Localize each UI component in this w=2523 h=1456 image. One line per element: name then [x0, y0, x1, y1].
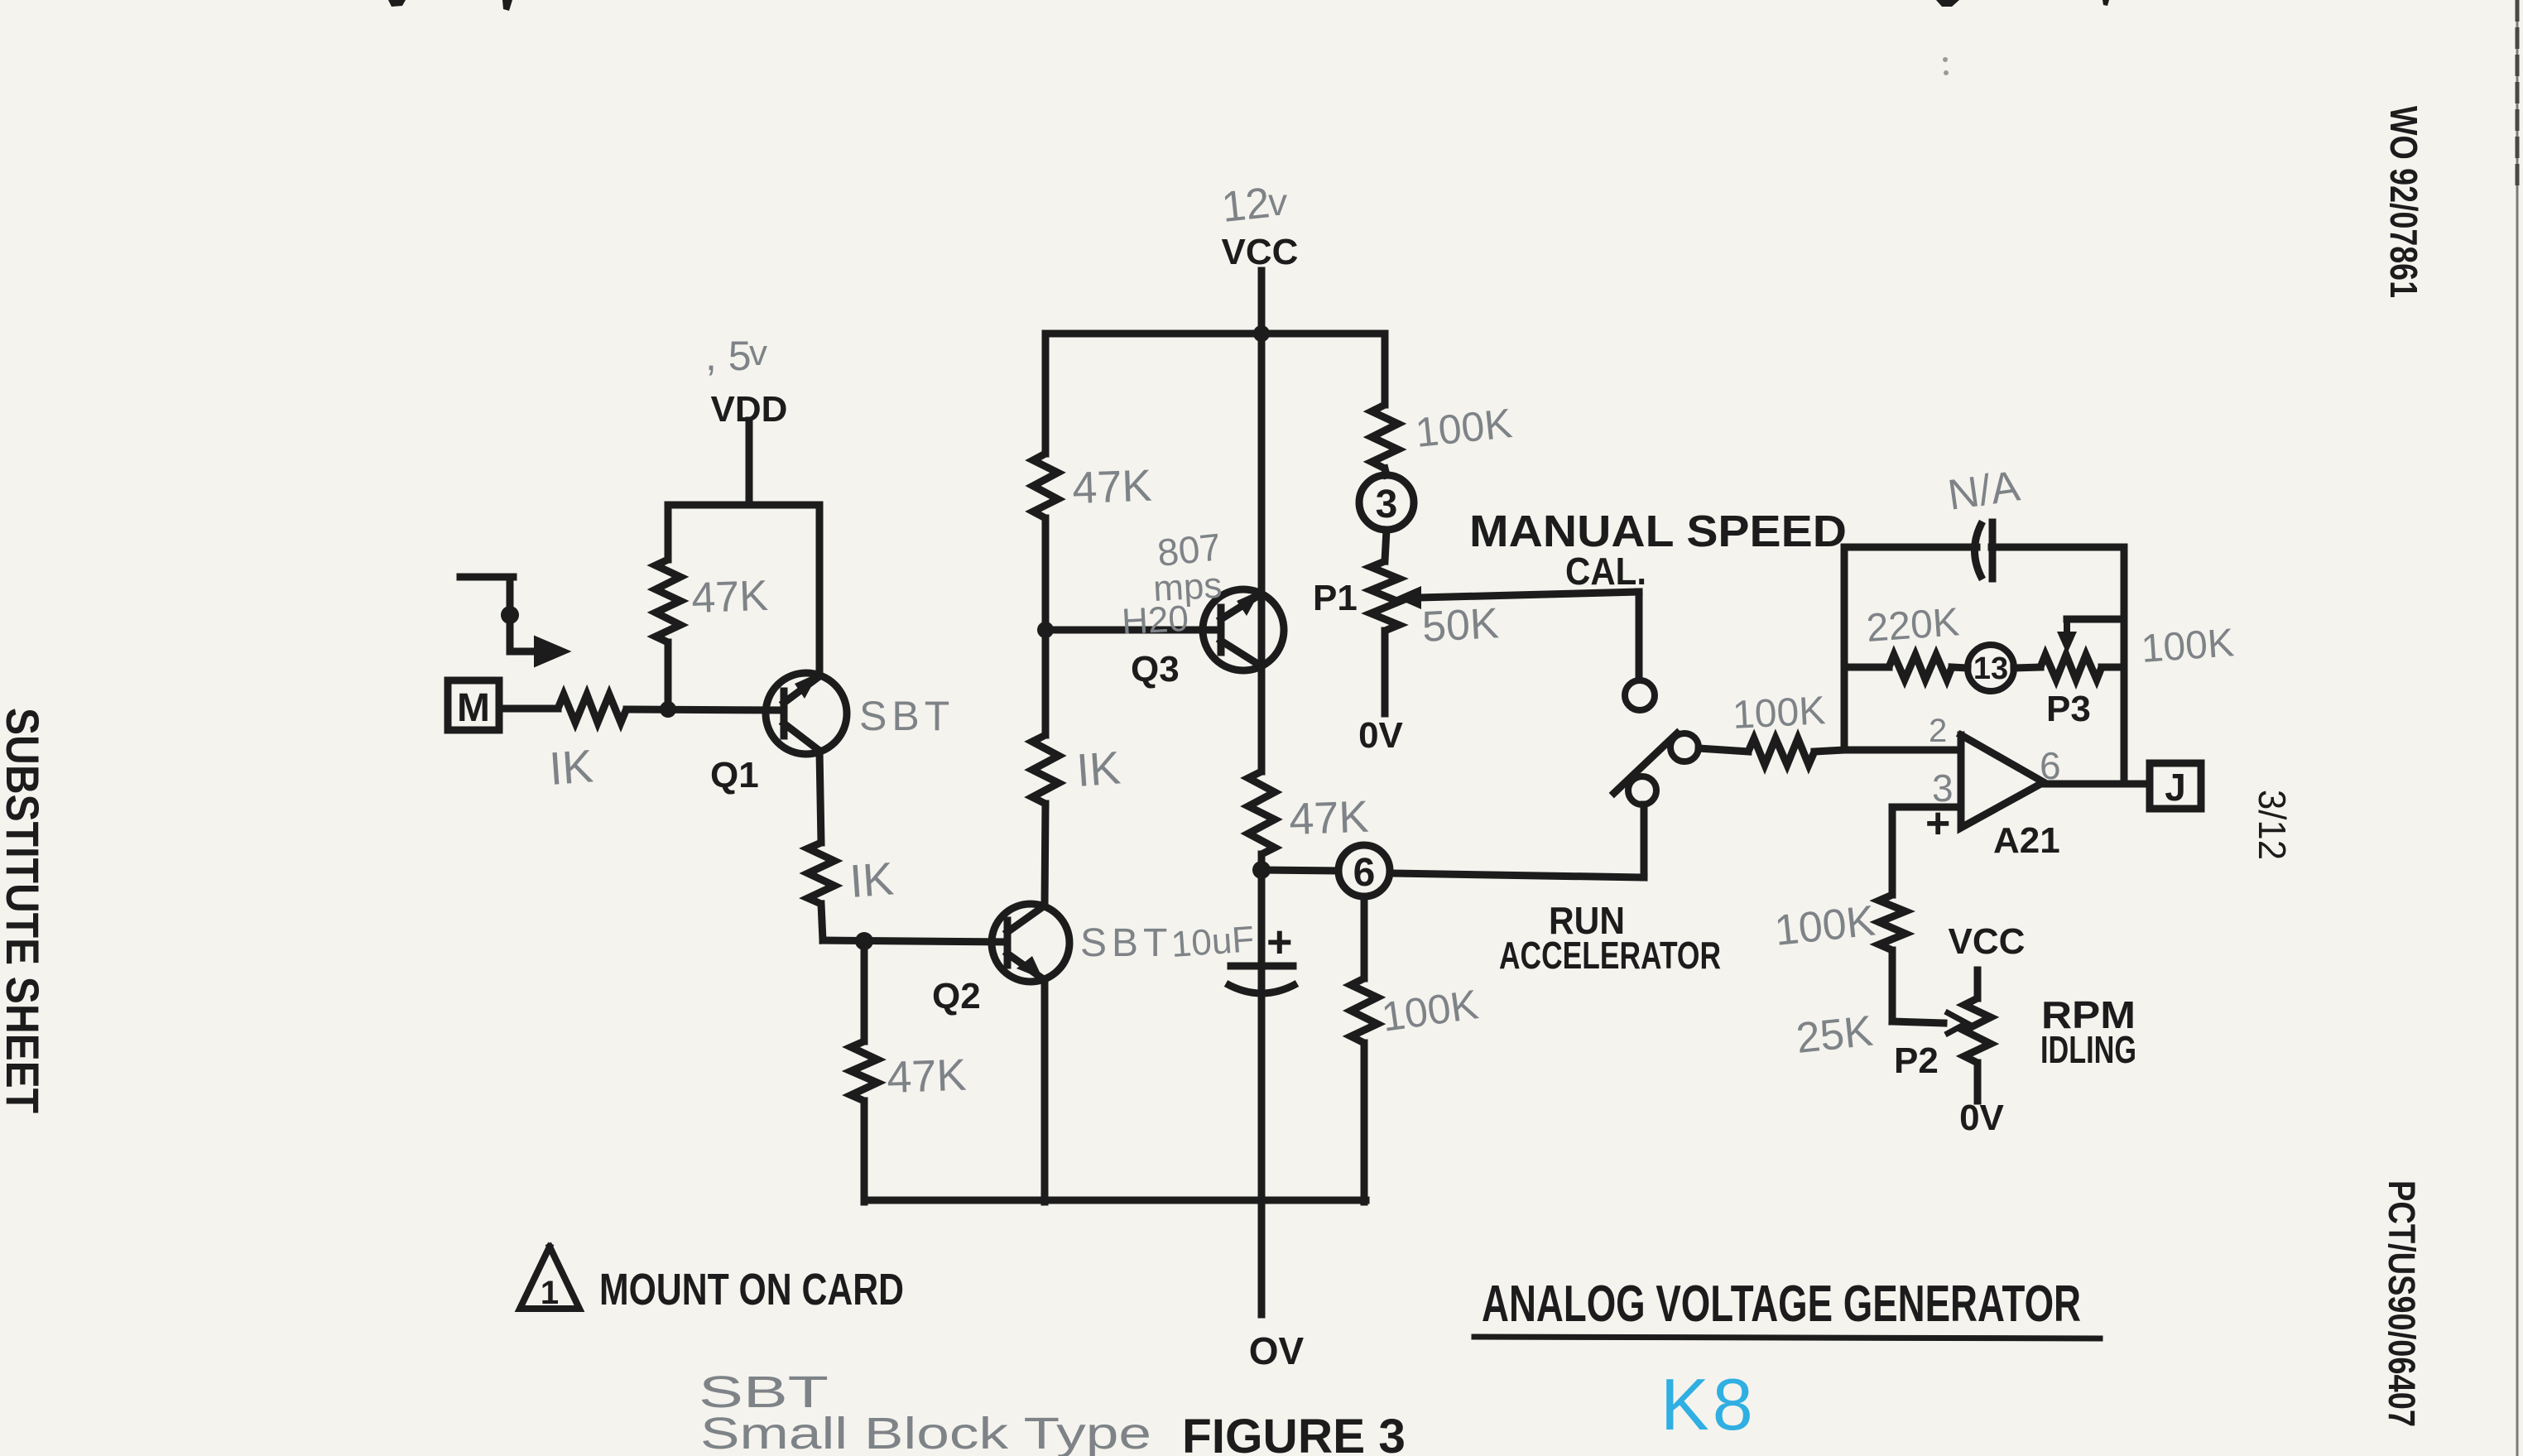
svg-text:Q1: Q1 [710, 755, 759, 795]
resistor 47K (Q2 base) [851, 1041, 877, 1101]
wire: Q1 emitter [819, 751, 821, 843]
svg-text:IK: IK [1074, 741, 1122, 796]
resistor 1K (Q1 emitter) [808, 843, 834, 904]
svg-text:MANUAL SPEED: MANUAL SPEED [1469, 507, 1847, 556]
wire: jack stub top [460, 574, 513, 581]
title underline [1474, 1337, 2100, 1338]
node: jack junction dot [501, 606, 519, 624]
wire: switch common to 100K [1699, 748, 1748, 752]
wire: junction down to 47K [861, 941, 868, 1041]
svg-text:CAL.: CAL. [1565, 550, 1646, 593]
svg-text:SBT: SBT [1080, 921, 1172, 965]
svg-text:ACCELERATOR: ACCELERATOR [1499, 934, 1721, 977]
wire: VCC stub to P2 [1974, 970, 1982, 998]
svg-text:SBT: SBT [859, 693, 954, 739]
svg-text:IDLING: IDLING [2040, 1028, 2136, 1071]
wire: resistor to Q1 base [627, 709, 784, 710]
svg-text:100K: 100K [2140, 621, 2236, 671]
resistor 220K (feedback) [1889, 655, 1952, 680]
capacitor 10uF [1231, 963, 1293, 970]
wire: Q2 emitter to ground rail [1041, 980, 1049, 1202]
svg-text:PCT/US90/06407: PCT/US90/06407 [2381, 1180, 2423, 1427]
svg-text:50K: 50K [1421, 599, 1501, 651]
node: capacitor junction dot [1252, 861, 1271, 879]
wire: junction to 1K [1042, 630, 1050, 735]
transistor Q1 [766, 673, 847, 754]
svg-text:3/12: 3/12 [2251, 790, 2294, 860]
svg-text:12: 12 [1219, 179, 1272, 232]
potentiometer P2 25K [1964, 998, 1991, 1063]
wire: jack stub vertical [507, 577, 514, 651]
svg-text:A21: A21 [1993, 820, 2060, 861]
svg-text:Q2: Q2 [932, 976, 981, 1016]
power VCC stub [1258, 271, 1266, 334]
wire: feedback box left edge [1841, 547, 1848, 750]
svg-text:3: 3 [1376, 483, 1398, 526]
svg-text:P2: P2 [1894, 1040, 1939, 1081]
switch contact (bottom, run) [1628, 776, 1656, 805]
svg-text:v: v [749, 333, 767, 373]
svg-text:1: 1 [541, 1275, 559, 1311]
switch blade [1614, 733, 1677, 793]
wire: node 6 down to 100K [1361, 896, 1368, 978]
wire: jack stub bottom [510, 648, 538, 656]
svg-text:FIGURE 3: FIGURE 3 [1182, 1410, 1406, 1456]
svg-text:P3: P3 [2046, 689, 2091, 729]
wire: right branch from rail [1382, 334, 1389, 405]
power VDD stub [746, 420, 753, 505]
wire: feedback box right edge [2121, 547, 2128, 784]
svg-text:10uF: 10uF [1170, 919, 1255, 965]
svg-text:, 5: , 5 [705, 333, 752, 379]
terminal M box [448, 680, 499, 730]
node: base junction dot [660, 701, 676, 718]
P2 wiper arrow (open) [1945, 1012, 1967, 1035]
svg-text:47K: 47K [886, 1050, 967, 1103]
note triangle 1 [520, 1247, 579, 1309]
resistor 47K (Q3 emitter) [1248, 771, 1275, 854]
resistor 100K (node 6 load) [1351, 978, 1377, 1043]
wire: op-amp non-inverting input [1892, 804, 1961, 811]
wire: switch run contact down to node 6 [1641, 805, 1648, 877]
op-amp A21 [1961, 735, 2044, 828]
wire: feedback box top (to capacitor) [1844, 544, 1977, 551]
potentiometer P3 100K [2014, 667, 2040, 668]
wire: left branch from VCC rail (collector chain) [1042, 334, 1050, 454]
resistor 47K (Q1 bias) [665, 505, 672, 560]
node: VCC rail dot [1253, 325, 1270, 342]
svg-text:6: 6 [1353, 851, 1376, 895]
svg-text:N/A: N/A [1945, 462, 2023, 520]
scan artifact: right edge line [2516, 0, 2519, 1456]
svg-text:100K: 100K [1732, 689, 1827, 738]
svg-text:0V: 0V [1959, 1098, 2004, 1138]
node: Q2 base junction dot [855, 932, 873, 950]
svg-text:VCC: VCC [1949, 921, 2026, 962]
wire: bottom ground rail [864, 1197, 1366, 1204]
svg-text:47K: 47K [1288, 792, 1369, 844]
P3 wiper arrow [2064, 619, 2070, 639]
potentiometer P1 50K [1371, 561, 1399, 631]
capacitor N/A (feedback) [1975, 521, 1983, 579]
node 3 (circled) [1359, 475, 1414, 530]
resistor 1K (input) [558, 694, 627, 723]
terminal J box [2150, 763, 2201, 809]
svg-text:+: + [1266, 917, 1293, 967]
svg-text:Q3: Q3 [1131, 649, 1180, 690]
svg-text:Small Block Type: Small Block Type [700, 1409, 1151, 1456]
wire: 0V stub [1258, 1200, 1266, 1314]
wire: op-amp inverting input [1844, 747, 1961, 754]
svg-text:0V: 0V [1358, 715, 1403, 756]
transistor Q3 [1203, 589, 1284, 670]
svg-text:IK: IK [848, 852, 895, 907]
svg-text:IK: IK [547, 739, 594, 795]
svg-text:K8: K8 [1660, 1363, 1756, 1445]
svg-text:47K: 47K [690, 572, 769, 622]
P1 wiper arrow and wire [1395, 586, 1421, 609]
scan artifact: top edge marks [388, 0, 406, 7]
wire: VCC line down through Q3 [1258, 334, 1266, 771]
node 6 (circled) [1338, 845, 1390, 896]
switch contact (middle, common) [1670, 733, 1699, 762]
svg-text:VDD: VDD [711, 389, 788, 430]
svg-text:OV: OV [1249, 1329, 1305, 1372]
wire: op-amp output [2044, 781, 2150, 788]
svg-text:H20: H20 [1121, 598, 1189, 642]
svg-text:WO 92/07861: WO 92/07861 [2382, 106, 2425, 298]
wire: bias box top [668, 502, 819, 509]
resistor 100K (P1 top) [1372, 405, 1398, 469]
svg-text:M: M [457, 686, 490, 730]
svg-text:2: 2 [1929, 713, 1947, 749]
wire: Q3 base wire [1045, 627, 1221, 634]
svg-text:VCC: VCC [1222, 232, 1299, 272]
svg-text:P1: P1 [1313, 578, 1358, 618]
svg-text:v: v [1268, 180, 1287, 223]
transistor Q2 [992, 904, 1069, 982]
resistor 47K (Q3 base pull-up) [1033, 454, 1058, 518]
wire: to P2 wiper [1892, 1021, 1944, 1023]
wire: feedback mid branch left [1844, 664, 1889, 671]
svg-text:ANALOG VOLTAGE GENERATOR: ANALOG VOLTAGE GENERATOR [1482, 1276, 2081, 1333]
wire: M to resistor 1K [499, 705, 558, 713]
svg-text:J: J [2165, 766, 2186, 809]
wire: VCC top rail [1045, 330, 1385, 338]
scan artifact: faint colon [1943, 57, 1948, 62]
svg-text:SUBSTITUTE SHEET: SUBSTITUTE SHEET [0, 708, 49, 1113]
resistor 100K (op-amp input) [1748, 738, 1814, 765]
resistor 100K (non-inv divider) [1879, 895, 1905, 950]
wire: node 3 to P1 [1385, 530, 1386, 561]
wire: Q1 collector [816, 505, 824, 676]
svg-text:MOUNT ON CARD: MOUNT ON CARD [599, 1265, 904, 1314]
node 13 (circled) [1968, 645, 2014, 691]
arrow: off-page signal arrow [535, 637, 569, 666]
switch contact (top, manual) [1625, 680, 1655, 710]
wire: emitter resistor to Q2 base [821, 904, 823, 940]
resistor 1K (Q2 collector) [1032, 735, 1059, 804]
wire: node 6 to capacitor junction [1261, 870, 1338, 871]
node: Q3 base junction dot [1037, 622, 1054, 638]
svg-text:13: 13 [1973, 651, 2008, 686]
svg-text:220K: 220K [1865, 600, 1961, 651]
wire: P2 bottom [1974, 1063, 1982, 1101]
svg-text:47K: 47K [1071, 461, 1152, 513]
svg-text:25K: 25K [1794, 1007, 1875, 1063]
